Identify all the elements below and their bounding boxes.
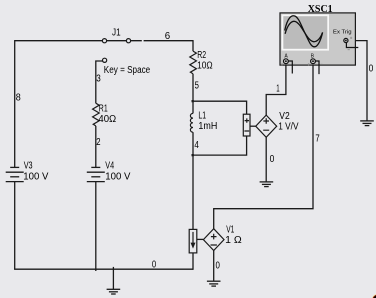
switch J1 throw circle (open, to R1) (103, 58, 107, 62)
wire R1 to V4 (95, 126, 97, 167)
junction node L1 bottom (192, 154, 194, 156)
ground right (Ex Trig) (360, 121, 374, 126)
svg-text:1: 1 (276, 84, 280, 95)
oscilloscope screen (283, 16, 327, 49)
svg-text:100 V: 100 V (23, 171, 48, 182)
wire scope B down (node 7) (214, 64, 313, 209)
svg-text:R2: R2 (197, 50, 206, 61)
ground below V1 (207, 281, 221, 286)
wire V1 diamond bottom to ground (213, 251, 215, 281)
CCVS V1 diamond (203, 229, 224, 251)
svg-text:L1: L1 (198, 111, 206, 122)
wire V2 sense bottom (193, 136, 247, 155)
VCVS V2 sense rectangle (243, 114, 250, 136)
inductor L1 arcs (190, 113, 193, 132)
battery V3 (6, 167, 24, 181)
wire left rail lower (14, 182, 16, 270)
svg-text:V2: V2 (279, 111, 290, 122)
oscilloscope XSC1 body (280, 13, 355, 65)
wire Ex Trig to right ground (348, 41, 367, 121)
svg-text:7: 7 (315, 134, 320, 145)
svg-text:V1: V1 (226, 224, 234, 235)
svg-text:J1: J1 (112, 27, 121, 38)
resistor R1 zigzag (93, 103, 100, 126)
switch J1 pole circle (102, 39, 106, 43)
wire V2 output top (node 1) to scope A (266, 64, 286, 116)
VCVS V2 diamond (256, 115, 277, 137)
svg-text:V4: V4 (105, 161, 114, 172)
terminal Ex Trig (344, 38, 348, 42)
wire below V1 sense to bottom rail (192, 253, 194, 270)
svg-text:2: 2 (96, 137, 101, 148)
oscilloscope screen white frame (282, 14, 329, 50)
svg-text:0: 0 (270, 154, 275, 165)
svg-text:Key = Space: Key = Space (104, 65, 151, 76)
svg-text:4: 4 (194, 140, 199, 151)
terminal B (311, 59, 316, 64)
terminal A (284, 59, 289, 64)
svg-text:5: 5 (195, 81, 200, 92)
wire J1 throw to R1 branch (96, 61, 103, 103)
CCVS V1 sense rectangle with arrow (189, 229, 197, 253)
corner logo blob (371, 293, 376, 298)
resistor R2 zigzag (190, 51, 197, 74)
wire V4 bottom (95, 182, 97, 271)
svg-text:V3: V3 (24, 161, 33, 172)
svg-text:1mH: 1mH (198, 121, 217, 132)
ground below V2 (260, 182, 274, 187)
wire node6 top-left segment (15, 40, 103, 42)
wire R2 to L1 (node 5) (192, 74, 194, 114)
terminal A stub pin (288, 61, 292, 74)
svg-text:10Ω: 10Ω (197, 61, 213, 72)
wire node6 vertical to R2 (192, 40, 194, 51)
terminal B stub pin (315, 61, 319, 74)
wire bottom rail node 0 (14, 268, 193, 270)
wire left rail upper (14, 40, 16, 167)
scope trace 1 (285, 16, 323, 47)
svg-text:Ex Trig: Ex Trig (333, 30, 352, 36)
svg-text:XSC1: XSC1 (308, 4, 333, 15)
wire L1 to V1 sense (node 4) (192, 132, 194, 229)
wire V2 output bottom to ground (265, 137, 267, 182)
wire V2 sense top (193, 101, 247, 114)
switch J1 throw circle (closed) (126, 39, 130, 43)
terminal Ex Trig stub pin (346, 43, 358, 48)
svg-text:1 Ω: 1 Ω (225, 235, 242, 246)
svg-text:6: 6 (165, 31, 171, 42)
wire J1 right pin (131, 40, 193, 42)
svg-text:0: 0 (216, 261, 221, 272)
wire V1 sense to diamond (197, 238, 203, 240)
svg-text:40Ω: 40Ω (98, 114, 116, 125)
svg-text:0: 0 (152, 260, 157, 271)
battery V4 (87, 167, 105, 181)
scope polarity marks (281, 37, 352, 66)
svg-text:100 V: 100 V (105, 171, 130, 182)
svg-text:0: 0 (369, 64, 374, 75)
wire V2 sense to diamond (250, 125, 256, 127)
scope trace 2 (285, 21, 322, 41)
wire V1 diamond top (213, 208, 215, 229)
svg-text:R1: R1 (99, 103, 108, 114)
svg-text:3: 3 (96, 73, 101, 84)
svg-text:1 V/V: 1 V/V (278, 122, 299, 133)
ground bottom rail (112, 267, 114, 289)
switch J1 closed bar (107, 40, 127, 42)
junction node L1 top (192, 100, 194, 102)
svg-text:8: 8 (16, 93, 21, 104)
